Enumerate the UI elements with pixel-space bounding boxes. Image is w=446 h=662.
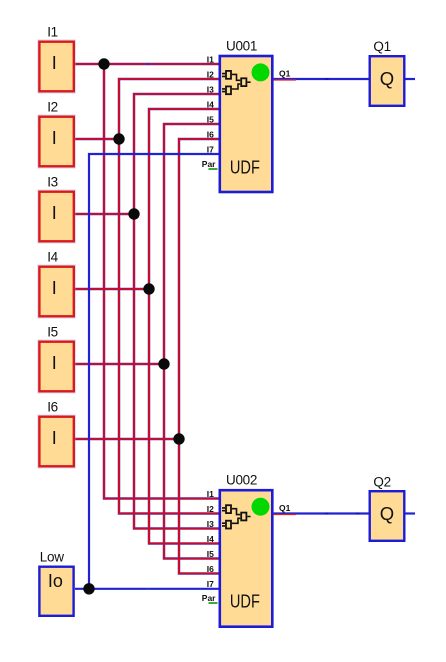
input block I6 <box>39 400 73 467</box>
svg-text:I: I <box>52 203 57 223</box>
wire red stub at U002 output <box>274 514 296 516</box>
svg-text:I6: I6 <box>207 564 214 574</box>
svg-text:I6: I6 <box>47 400 58 415</box>
wire midpoint ticks <box>146 64 150 589</box>
svg-text:Par: Par <box>202 159 216 169</box>
svg-text:I2: I2 <box>207 504 214 514</box>
svg-text:I: I <box>52 128 57 148</box>
node junction Low <box>83 583 94 594</box>
svg-text:Par: Par <box>202 593 216 603</box>
input block I5 <box>39 325 73 392</box>
svg-text:I1: I1 <box>47 25 58 40</box>
wire U001 Q1 to block Q1 <box>274 78 369 80</box>
svg-text:I4: I4 <box>207 534 214 544</box>
svg-text:I7: I7 <box>207 579 214 589</box>
wire I5 to U001 pin I5 and U002 pin I5 <box>75 124 219 559</box>
node junction I3 <box>128 208 139 219</box>
node junction I6 <box>173 433 184 444</box>
wire Low output to U002 pin I7 <box>75 588 219 590</box>
svg-text:I1: I1 <box>207 489 214 499</box>
constant block Low Io <box>39 550 73 616</box>
input block I4 <box>39 250 73 317</box>
svg-text:I5: I5 <box>47 325 58 340</box>
input block I1 <box>39 25 73 92</box>
U002 pin labels <box>202 489 291 603</box>
svg-text:Q: Q <box>380 503 394 524</box>
svg-text:I3: I3 <box>47 175 58 190</box>
UDF block U001 <box>220 38 272 192</box>
wire I3 to U001 pin I3 and U002 pin I3 <box>75 94 219 529</box>
U001 icon <box>222 71 251 94</box>
svg-text:I: I <box>52 53 57 73</box>
wire I1 trunk down to U002 pin I1 <box>104 64 219 499</box>
output block Q2 <box>370 474 405 541</box>
U002 icon <box>222 505 251 528</box>
wire I2 to U001 pin I2 and U002 pin I2 <box>75 79 219 514</box>
svg-text:I1: I1 <box>207 54 214 64</box>
wire I1 horizontal to U001 pin I1 <box>75 63 219 66</box>
svg-text:I3: I3 <box>207 84 214 94</box>
input block I2 <box>39 100 73 167</box>
svg-text:I5: I5 <box>207 114 214 124</box>
svg-text:I4: I4 <box>47 250 58 265</box>
svg-text:UDF: UDF <box>230 157 260 177</box>
U001 green LED <box>252 63 270 81</box>
svg-text:I4: I4 <box>207 99 214 109</box>
svg-text:Io: Io <box>48 571 63 591</box>
svg-text:Q: Q <box>380 68 394 89</box>
wire stub right of Q1 <box>406 78 416 80</box>
wire stub right of Q2 <box>406 512 416 514</box>
svg-text:Q1: Q1 <box>373 39 390 54</box>
UDF block U002 <box>220 472 272 626</box>
wire I4 to U001 pin I4 and U002 pin I4 <box>75 109 219 544</box>
wire I6 to U001 pin I6 and U002 pin I6 <box>75 139 219 574</box>
U002 green LED <box>252 498 270 516</box>
svg-text:I: I <box>52 428 57 448</box>
svg-text:I3: I3 <box>207 519 214 529</box>
U001 pin labels <box>202 54 291 168</box>
svg-text:U001: U001 <box>226 38 257 53</box>
svg-text:I5: I5 <box>207 549 214 559</box>
svg-text:UDF: UDF <box>230 591 260 611</box>
svg-text:I6: I6 <box>207 129 214 139</box>
input block I3 <box>39 175 73 242</box>
svg-text:Q2: Q2 <box>373 474 390 489</box>
wire Low trunk up to U001 pin I7 <box>89 154 219 589</box>
svg-text:I2: I2 <box>47 100 58 115</box>
svg-text:I: I <box>52 353 57 373</box>
U001 Par green stub <box>209 168 218 170</box>
wire red stub at U001 output <box>274 79 296 81</box>
svg-text:Q1: Q1 <box>279 503 291 513</box>
svg-text:I7: I7 <box>207 144 214 154</box>
svg-text:I2: I2 <box>207 69 214 79</box>
svg-text:Q1: Q1 <box>279 69 291 79</box>
output block Q1 <box>370 39 405 106</box>
svg-text:U002: U002 <box>226 472 257 487</box>
svg-text:Low: Low <box>40 550 64 565</box>
wire U002 Q1 to block Q2 <box>274 512 369 514</box>
node junction I4 <box>143 283 154 294</box>
U002 Par green stub <box>209 602 218 604</box>
node junction I2 <box>113 133 124 144</box>
node junction I5 <box>158 358 169 369</box>
node junction I1 <box>98 58 109 69</box>
svg-text:I: I <box>52 278 57 298</box>
